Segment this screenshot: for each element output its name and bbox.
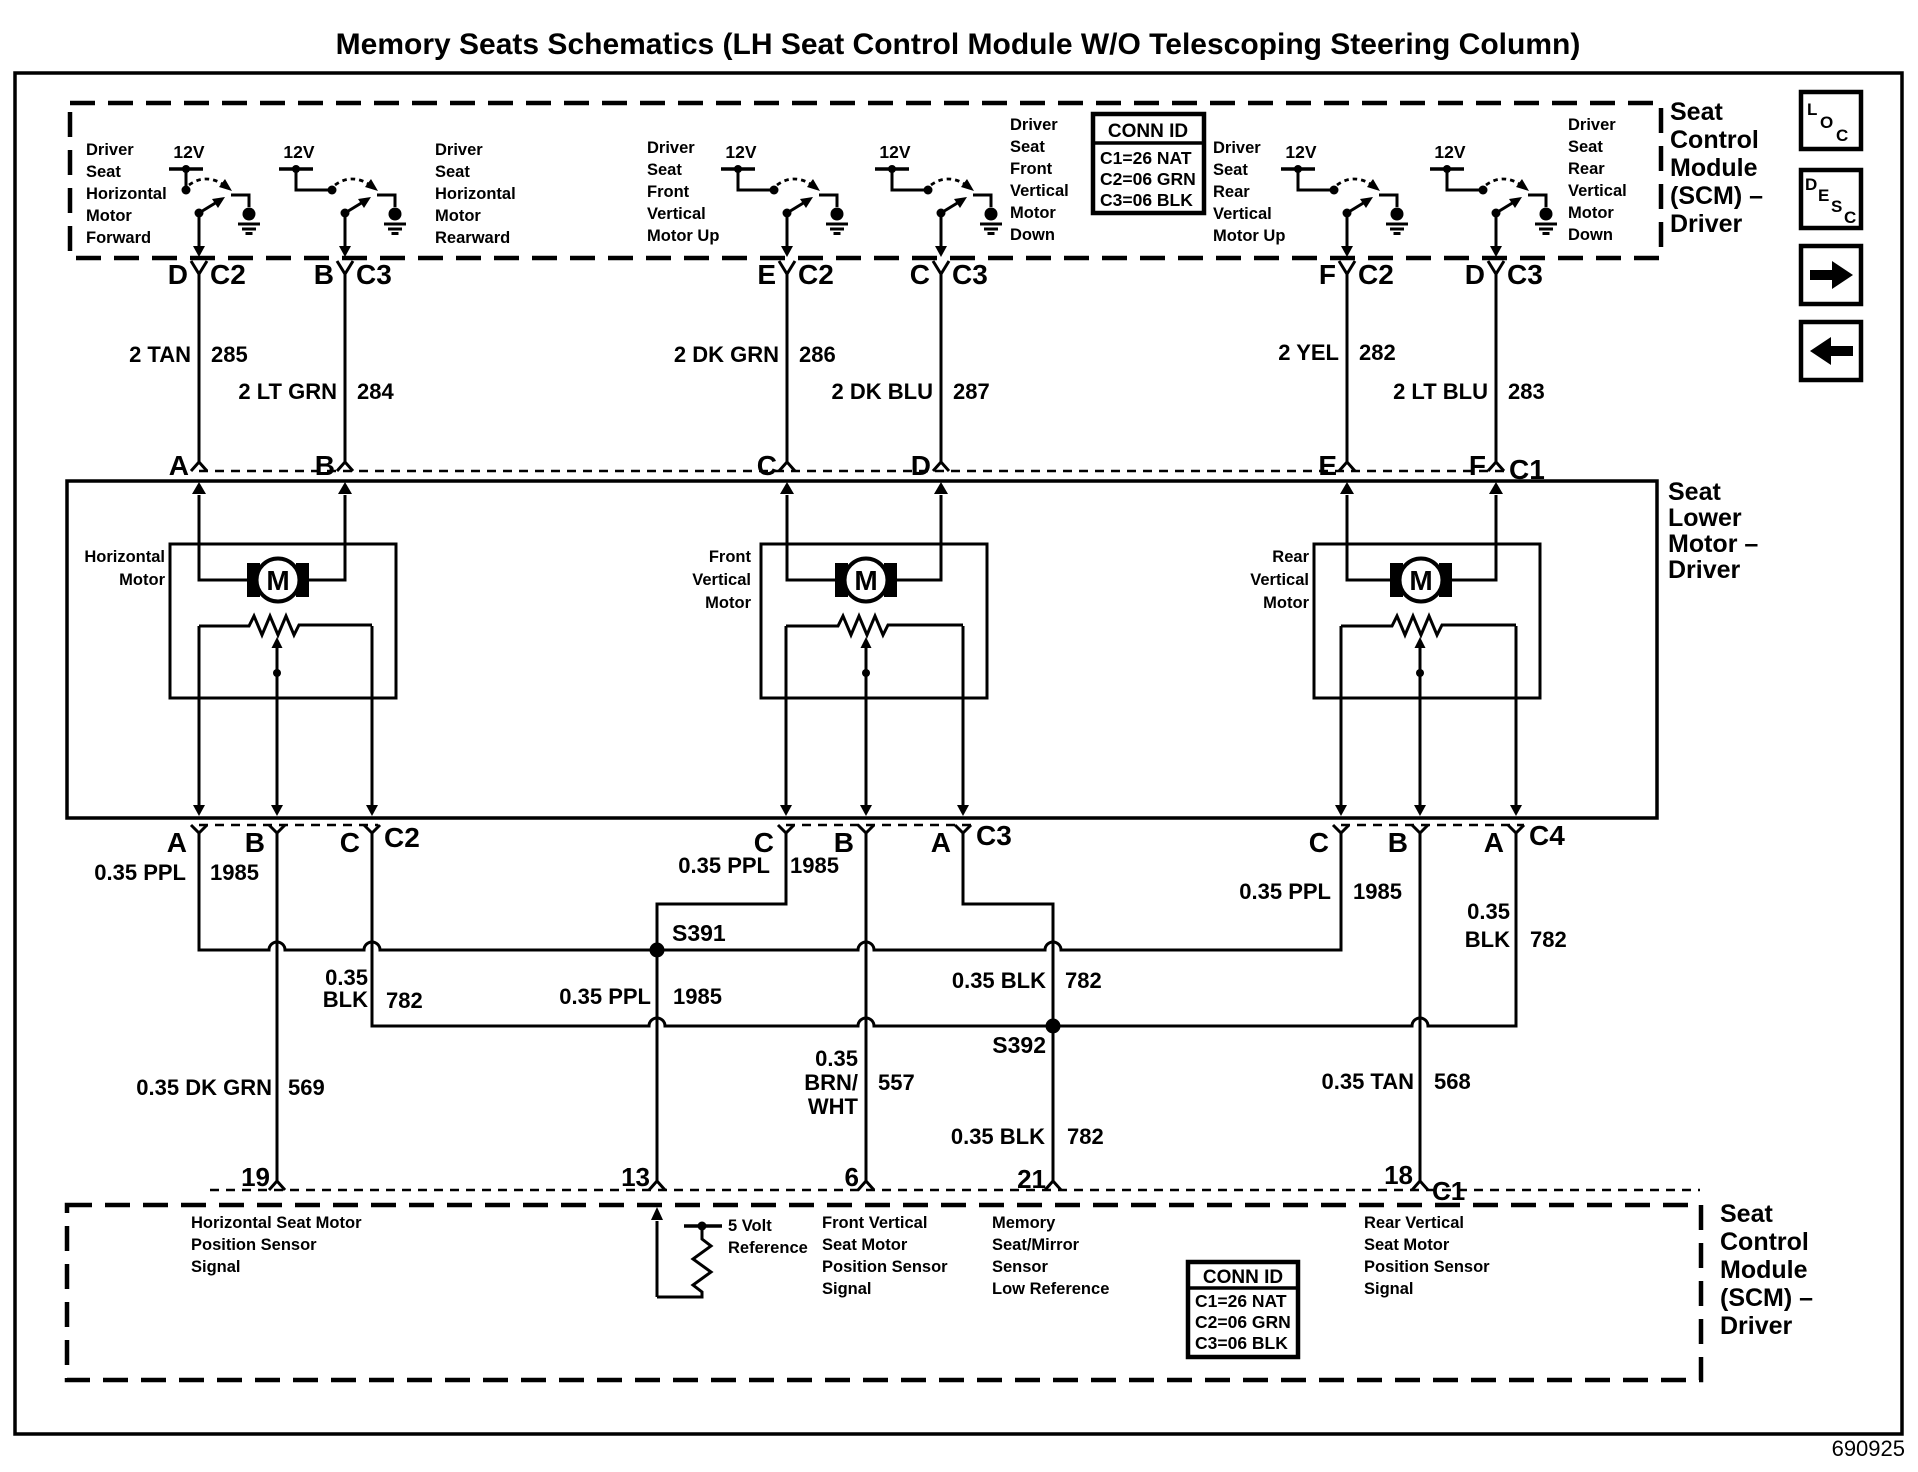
svg-text:Down: Down [1010,226,1055,244]
svg-text:Motor: Motor [119,571,165,589]
svg-text:S392: S392 [992,1032,1046,1058]
pin C seat lower motor bottom [340,825,380,858]
svg-text:C3=06 BLK: C3=06 BLK [1100,190,1193,210]
label: Memory Seat/Mirror Sensor Low Reference [992,1214,1109,1298]
motor M1 (Horizontal Motor) symbol (M) [247,559,309,602]
pot legs and wiper of motor M1 (Horizontal Motor) [193,626,378,816]
label: Driver Seat Horizontal Motor Rearward [435,141,516,247]
wire circuit 782 BLK: S392 down to pin 21 [951,1026,1104,1181]
motor M1 (Horizontal Motor) housing box [170,544,396,698]
splice S391 [650,920,726,958]
wire circuit 284 2 LT GRN [238,274,394,462]
connector pin D of C2 (SCM top) [168,259,246,290]
svg-text:Motor: Motor [435,207,481,225]
pin E seat lower motor top [1318,450,1355,481]
pot legs and wiper of motor M3 (Rear Vertical Motor) [1335,626,1522,816]
switch S2: Driver Seat Horizontal Motor Rearward [279,142,395,218]
svg-text:2 TAN: 2 TAN [129,342,191,367]
motor M2 (Front Vertical Motor) label [692,548,751,612]
LOC button [1801,92,1861,149]
svg-text:Driver: Driver [1670,210,1743,238]
connector row C1 at Seat Lower Motor (dashed) [199,470,1505,472]
pin 13 SCM bottom [621,1162,665,1192]
connector pin C of C3 (SCM top) [910,259,988,290]
ground symbol at switch S6 [1535,208,1557,234]
wire: switch S4 output down to SCM connector [935,212,947,257]
wire circuit 1985 PPL: pin C M2 down to S391 [657,833,786,950]
svg-text:Signal: Signal [191,1258,241,1276]
svg-text:Memory: Memory [992,1214,1056,1232]
svg-text:A: A [169,450,189,481]
wire circuit 568 TAN: pin B M3 down to pin 18 [1321,833,1470,1181]
svg-text:782: 782 [1065,968,1102,993]
svg-text:Motor: Motor [1568,204,1614,222]
wire: switch S3 output down to SCM connector [781,212,793,257]
wire: switch S2 output down to SCM connector [339,212,351,257]
svg-text:C2: C2 [384,822,420,853]
wire circuit 782 BLK: pin A M2 down to S392 [952,833,1102,1026]
motor M3 (Rear Vertical Motor) armature wires [1340,482,1503,580]
svg-text:A: A [931,827,951,858]
svg-text:Rear: Rear [1272,548,1309,566]
position sensor potentiometer of motor M1 (Horizontal Motor) [199,616,372,635]
pin C seat lower motor bottom [754,825,794,858]
ground symbol at switch S3 [826,208,848,234]
svg-text:0.35 PPL: 0.35 PPL [94,860,186,885]
wire label 0.35 PPL 1985 (right) [1239,879,1402,904]
label: Seat Control Module (SCM) - Driver (top right) [1670,98,1763,238]
svg-text:284: 284 [357,379,394,404]
connector rows C2/C3/C4 below Seat Lower Motor (dashed) [199,824,378,826]
motor M3 (Rear Vertical Motor) housing box [1314,544,1540,698]
svg-text:CONN ID: CONN ID [1203,1267,1283,1288]
svg-text:Vertical: Vertical [647,205,706,223]
svg-text:Horizontal: Horizontal [86,185,167,203]
Seat Control Module (SCM) - Driver dashed box (bottom) [67,1205,1701,1380]
svg-text:Motor –: Motor – [1668,530,1758,558]
svg-text:287: 287 [953,379,990,404]
svg-text:C2=06 GRN: C2=06 GRN [1195,1312,1291,1332]
svg-text:782: 782 [386,988,423,1013]
svg-text:Driver: Driver [1568,116,1616,134]
svg-text:C3=06 BLK: C3=06 BLK [1195,1333,1288,1353]
previous arrow button [1801,322,1861,380]
pot legs and wiper of motor M2 (Front Vertical Motor) [780,626,969,816]
svg-text:B: B [245,827,265,858]
svg-text:E: E [1318,450,1337,481]
svg-text:C: C [910,259,930,290]
svg-text:Front Vertical: Front Vertical [822,1214,927,1232]
svg-text:Seat: Seat [86,163,121,181]
svg-text:0.35 TAN: 0.35 TAN [1321,1069,1414,1094]
svg-text:782: 782 [1530,927,1567,952]
svg-text:Lower: Lower [1668,504,1742,532]
pin A seat lower motor bottom [931,825,971,858]
svg-text:1985: 1985 [1353,879,1402,904]
label: Driver Seat Front Vertical Motor Down [1010,116,1069,244]
svg-text:12V: 12V [725,142,756,162]
wire: switch S5 output down to SCM connector [1341,212,1353,257]
switch S3: Driver Seat Front Vertical Motor Up [721,142,837,218]
svg-text:C1=26 NAT: C1=26 NAT [1100,148,1192,168]
motor M1 (Horizontal Motor) armature wires [192,482,352,580]
svg-text:Seat: Seat [1213,161,1248,179]
label: Driver Seat Rear Vertical Motor Down [1568,116,1627,244]
svg-text:D: D [1465,259,1485,290]
svg-text:C: C [1844,208,1856,227]
wire label 0.35 BLK 782 (left) [323,965,423,1013]
svg-text:Position Sensor: Position Sensor [822,1258,948,1276]
pin B seat lower motor bottom [834,825,874,858]
svg-text:Motor: Motor [1263,594,1309,612]
svg-text:BLK: BLK [1465,927,1510,952]
svg-text:283: 283 [1508,379,1545,404]
svg-text:S: S [1831,197,1842,216]
pin B seat lower motor bottom [1388,825,1428,858]
svg-text:D: D [1805,175,1817,194]
svg-text:Down: Down [1568,226,1613,244]
svg-text:2 LT GRN: 2 LT GRN [238,379,337,404]
svg-text:C2: C2 [798,259,834,290]
svg-text:Seat: Seat [435,163,470,181]
svg-text:Rearward: Rearward [435,229,510,247]
pin C seat lower motor top [757,450,795,481]
svg-text:M: M [266,565,289,596]
wire label 0.35 BLK 782 (right) [1465,899,1567,952]
ground symbol at switch S1 [238,208,260,234]
svg-text:Signal: Signal [1364,1280,1414,1298]
svg-text:2 YEL: 2 YEL [1278,340,1339,365]
svg-text:0.35 PPL: 0.35 PPL [1239,879,1331,904]
svg-text:0.35 PPL: 0.35 PPL [559,984,651,1009]
svg-text:S391: S391 [672,920,726,946]
svg-text:21: 21 [1017,1164,1046,1194]
svg-text:Front: Front [647,183,690,201]
switch S1: Driver Seat Horizontal Motor Forward [169,142,249,218]
svg-text:12V: 12V [1285,142,1316,162]
svg-text:B: B [314,259,334,290]
svg-text:C: C [340,827,360,858]
svg-text:Sensor: Sensor [992,1258,1049,1276]
svg-text:Driver: Driver [1213,139,1261,157]
Seat Lower Motor - Driver box [67,481,1657,818]
motor M3 (Rear Vertical Motor) label [1250,548,1309,612]
svg-text:Driver: Driver [1668,556,1741,584]
svg-text:C1: C1 [1432,1176,1465,1206]
svg-text:Reference: Reference [728,1239,808,1257]
svg-text:F: F [1319,259,1336,290]
svg-text:M: M [854,565,877,596]
svg-text:A: A [167,827,187,858]
svg-text:Horizontal Seat Motor: Horizontal Seat Motor [191,1214,362,1232]
svg-text:0.35 BLK: 0.35 BLK [952,968,1046,993]
svg-text:Driver: Driver [435,141,483,159]
svg-text:C: C [1836,126,1848,145]
svg-text:Seat: Seat [647,161,682,179]
svg-text:5 Volt: 5 Volt [728,1217,772,1235]
position sensor potentiometer of motor M2 (Front Vertical Motor) [786,616,963,635]
svg-text:18: 18 [1384,1160,1413,1190]
motor M2 (Front Vertical Motor) symbol (M) [835,559,897,602]
svg-text:286: 286 [799,342,836,367]
svg-text:Driver: Driver [1010,116,1058,134]
wire circuit 782 BLK: pin C M1 to S392 to pin A M3 (with hops) [372,833,1516,1026]
pin 21 SCM bottom [1017,1164,1061,1194]
svg-text:Front: Front [1010,160,1053,178]
svg-text:Position Sensor: Position Sensor [191,1236,317,1254]
wire circuit 1985 PPL: pin A M1 to S391 to pin C M3 (with hops) [199,833,1341,950]
label: Horizontal Seat Motor Position Sensor Signal [191,1214,362,1276]
motor M2 (Front Vertical Motor) armature wires [780,482,948,580]
pin B seat lower motor top [315,450,353,481]
motor M1 (Horizontal Motor) label [84,548,165,589]
pin D seat lower motor top [911,450,949,481]
DESC button [1801,170,1861,228]
svg-text:Rear: Rear [1568,160,1605,178]
svg-text:Module: Module [1670,154,1758,182]
svg-text:19: 19 [241,1162,270,1192]
svg-text:C3: C3 [356,259,392,290]
svg-text:C2=06 GRN: C2=06 GRN [1100,169,1196,189]
wire circuit 286 2 DK GRN [674,274,836,462]
svg-text:2 LT BLU: 2 LT BLU [1393,379,1488,404]
svg-text:Seat/Mirror: Seat/Mirror [992,1236,1080,1254]
pin 18 SCM bottom [1384,1160,1428,1190]
svg-text:C2: C2 [210,259,246,290]
svg-text:782: 782 [1067,1124,1104,1149]
CONN ID table (top) [1093,114,1204,213]
svg-text:A: A [1484,827,1504,858]
svg-text:6: 6 [845,1162,859,1192]
motor M3 (Rear Vertical Motor) symbol (M) [1390,559,1452,602]
svg-text:Forward: Forward [86,229,151,247]
svg-text:E: E [1818,186,1829,205]
next arrow button [1801,246,1861,304]
svg-text:Horizontal: Horizontal [435,185,516,203]
svg-text:0.35 PPL: 0.35 PPL [678,853,770,878]
wire circuit 285 2 TAN [129,274,248,462]
splice S392 [992,1019,1060,1059]
svg-text:0.35: 0.35 [1467,899,1510,924]
svg-text:12V: 12V [173,142,204,162]
svg-text:Module: Module [1720,1256,1808,1284]
svg-text:B: B [1388,827,1408,858]
svg-text:Vertical: Vertical [692,571,751,589]
wire circuit 1985 PPL: S391 down to pin 13 [559,950,722,1181]
svg-text:Seat Motor: Seat Motor [822,1236,908,1254]
svg-text:D: D [911,450,931,481]
svg-text:282: 282 [1359,340,1396,365]
svg-text:Seat: Seat [1010,138,1045,156]
pin A seat lower motor top [169,450,207,481]
pin A seat lower motor bottom [167,825,207,858]
CONN ID table (bottom) [1188,1262,1298,1357]
wire circuit 283 2 LT BLU [1393,274,1545,462]
svg-text:C3: C3 [1507,259,1543,290]
label: Seat Control Module (SCM) - Driver (bottom right) [1720,1200,1813,1340]
svg-text:Seat: Seat [1568,138,1603,156]
svg-text:557: 557 [878,1070,915,1095]
pin F seat lower motor top [1469,450,1504,481]
svg-text:Seat: Seat [1670,98,1723,126]
svg-text:C: C [757,450,777,481]
svg-text:D: D [168,259,188,290]
svg-text:C4: C4 [1529,820,1565,851]
svg-text:Rear Vertical: Rear Vertical [1364,1214,1464,1232]
svg-text:(SCM) –: (SCM) – [1670,182,1763,210]
svg-text:Seat: Seat [1720,1200,1773,1228]
svg-text:0.35 DK GRN: 0.35 DK GRN [136,1075,272,1100]
connector pin E of C2 (SCM top) [757,259,833,290]
wire circuit 282 2 YEL [1278,274,1395,462]
svg-text:Horizontal: Horizontal [84,548,165,566]
pin C seat lower motor bottom [1309,825,1349,858]
svg-text:1985: 1985 [790,853,839,878]
svg-text:Vertical: Vertical [1010,182,1069,200]
svg-text:Driver: Driver [86,141,134,159]
svg-text:Seat: Seat [1668,478,1721,506]
svg-text:Rear: Rear [1213,183,1250,201]
label: Rear Vertical Seat Motor Position Sensor Signal [1364,1214,1490,1298]
pin B seat lower motor bottom [245,825,285,858]
switch S6: Driver Seat Rear Vertical Motor Down [1430,142,1546,218]
connector pin B of C3 (SCM top) [314,259,392,290]
svg-text:BLK: BLK [323,987,368,1012]
wire circuit 557 BRN/WHT: pin B M2 down to pin 6 [804,833,915,1181]
motor M2 (Front Vertical Motor) housing box [761,544,987,698]
svg-text:0.35: 0.35 [815,1046,858,1071]
ground symbol at switch S5 [1386,208,1408,234]
pin 6 SCM bottom [845,1162,874,1192]
svg-text:2 DK BLU: 2 DK BLU [832,379,933,404]
svg-text:690925: 690925 [1832,1436,1905,1461]
ground symbol at switch S4 [980,208,1002,234]
Seat Control Module (SCM) - Driver dashed box (top) [70,103,1661,258]
ground symbol at switch S2 [384,208,406,234]
svg-text:L: L [1807,100,1817,119]
svg-text:C3: C3 [952,259,988,290]
svg-text:Driver: Driver [1720,1312,1793,1340]
svg-text:Vertical: Vertical [1250,571,1309,589]
svg-text:0.35 BLK: 0.35 BLK [951,1124,1045,1149]
svg-text:Signal: Signal [822,1280,872,1298]
svg-text:C: C [1309,827,1329,858]
svg-text:568: 568 [1434,1069,1471,1094]
wire: switch S6 output down to SCM connector [1490,212,1502,257]
svg-text:Motor: Motor [1010,204,1056,222]
position sensor potentiometer of motor M3 (Rear Vertical Motor) [1341,616,1516,635]
svg-text:F: F [1469,450,1486,481]
svg-text:O: O [1820,113,1833,132]
wire circuit 569 DK GRN: pin B M1 down to pin 19 [136,833,324,1181]
svg-text:Position Sensor: Position Sensor [1364,1258,1490,1276]
wire circuit 287 2 DK BLU [832,274,990,462]
svg-text:CONN ID: CONN ID [1108,121,1188,142]
pin A seat lower motor bottom [1484,825,1524,858]
svg-text:Vertical: Vertical [1213,205,1272,223]
label: Driver Seat Front Vertical Motor Up [647,139,719,245]
svg-text:E: E [757,259,776,290]
svg-text:1985: 1985 [673,984,722,1009]
svg-text:C2: C2 [1358,259,1394,290]
svg-text:Seat Motor: Seat Motor [1364,1236,1450,1254]
svg-text:Low Reference: Low Reference [992,1280,1109,1298]
svg-text:Motor Up: Motor Up [1213,227,1285,245]
svg-text:Motor: Motor [86,207,132,225]
svg-text:BRN/: BRN/ [804,1070,858,1095]
svg-text:Vertical: Vertical [1568,182,1627,200]
svg-text:Motor: Motor [705,594,751,612]
wire: switch S1 output down to SCM connector [193,212,205,257]
svg-text:M: M [1409,565,1432,596]
label: Front Vertical Seat Motor Position Sensor Signal [822,1214,948,1298]
connector pin F of C2 (SCM top) [1319,259,1394,290]
svg-text:Control: Control [1670,126,1759,154]
5 Volt Reference pull-up resistor at pin 13 [651,1207,808,1297]
svg-text:C1=26 NAT: C1=26 NAT [1195,1291,1287,1311]
svg-text:Control: Control [1720,1228,1809,1256]
svg-text:1985: 1985 [210,860,259,885]
svg-text:12V: 12V [1434,142,1465,162]
svg-text:Driver: Driver [647,139,695,157]
label: Driver Seat Horizontal Motor Forward [86,141,167,247]
pin 19 SCM bottom [241,1162,285,1192]
wire label 0.35 PPL 1985 (left) [94,860,259,885]
svg-text:13: 13 [621,1162,650,1192]
connector pin D of C3 (SCM top) [1465,259,1543,290]
svg-text:569: 569 [288,1075,325,1100]
svg-text:12V: 12V [879,142,910,162]
svg-text:12V: 12V [283,142,314,162]
svg-text:Motor Up: Motor Up [647,227,719,245]
label: Seat Lower Motor - Driver [1668,478,1758,584]
svg-text:WHT: WHT [808,1094,859,1119]
svg-text:285: 285 [211,342,248,367]
label: Driver Seat Rear Vertical Motor Up [1213,139,1285,245]
switch S5: Driver Seat Rear Vertical Motor Up [1281,142,1397,218]
switch S4: Driver Seat Front Vertical Motor Down [875,142,991,218]
SCM bottom connector row (dashed) [210,1189,1700,1191]
svg-text:Front: Front [709,548,752,566]
svg-text:C3: C3 [976,820,1012,851]
svg-text:Memory Seats Schematics (LH Se: Memory Seats Schematics (LH Seat Control… [336,28,1581,61]
svg-text:B: B [315,450,335,481]
svg-text:2 DK GRN: 2 DK GRN [674,342,779,367]
svg-text:(SCM) –: (SCM) – [1720,1284,1813,1312]
